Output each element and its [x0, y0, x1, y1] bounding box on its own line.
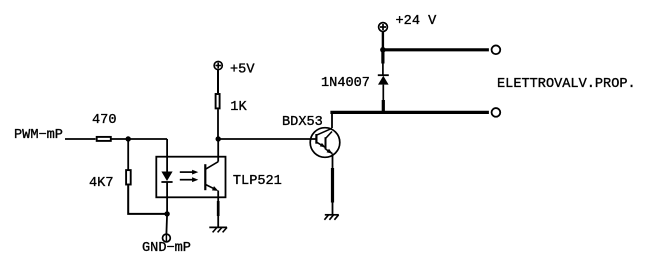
svg-text:470: 470 [92, 113, 116, 128]
svg-text:+5V: +5V [230, 63, 255, 78]
wire PWM input [65, 138, 96, 140]
junction PWM/4K7 [126, 136, 131, 141]
junction GND node [164, 211, 169, 216]
wire base node to BDX53 base [218, 138, 316, 140]
wire 1K to base node [217, 109, 219, 139]
svg-text:1N4007: 1N4007 [321, 76, 370, 91]
svg-text:GND−mP: GND−mP [142, 241, 191, 256]
wire opto emitter pin [217, 191, 219, 203]
svg-text:4K7: 4K7 [89, 176, 113, 191]
svg-text:TLP521: TLP521 [233, 174, 282, 189]
wire top rail (thick) [381, 48, 489, 51]
wire BDX53 collector up to output line [331, 112, 333, 128]
wire LED anode pin [166, 139, 168, 172]
transistor BDX53 [310, 128, 340, 158]
ground (opto emitter) [209, 226, 227, 228]
light arrow upper [180, 171, 193, 173]
LED diode of opto [161, 172, 172, 182]
diode 1N4007 [378, 74, 389, 76]
svg-text:ELETTROVALV.PROP.: ELETTROVALV.PROP. [497, 77, 636, 92]
wire +24V down to top rail [382, 32, 384, 50]
wire lower rail (thick) [330, 111, 489, 114]
wire LED cathode pin [166, 182, 168, 214]
power +24V symbol [379, 23, 388, 32]
wire to GND-mP terminal [165, 214, 168, 234]
opto-coupler U1 box [156, 157, 225, 198]
svg-text:PWM−mP: PWM−mP [14, 128, 63, 143]
resistor 1K [216, 94, 220, 108]
wire +5V to 1K [217, 70, 219, 93]
wire 470 to LED pin [112, 138, 168, 140]
wire diode anode to lower rail [382, 85, 384, 101]
wire rail to diode cathode [381, 50, 384, 64]
power +5V symbol [214, 61, 222, 69]
svg-text:1K: 1K [230, 100, 247, 115]
resistor 470 [97, 137, 111, 141]
terminal upper [492, 45, 501, 54]
wire junction to 4K7 [127, 139, 129, 170]
light arrow lower [180, 179, 193, 181]
resistor 4K7 [126, 170, 131, 184]
wire 4K7 bottom to GND node [128, 185, 167, 214]
phototransistor of opto [204, 164, 206, 190]
terminal lower [492, 108, 501, 117]
junction top rail [380, 47, 386, 53]
terminal GND-mP [163, 234, 171, 242]
ground (BDX53 emitter) [325, 214, 339, 216]
junction base node [216, 136, 221, 141]
svg-text:BDX53: BDX53 [282, 115, 323, 130]
svg-text:+24 V: +24 V [396, 14, 438, 29]
wire BDX53 emitter down [332, 154, 334, 169]
wire opto collector pin to base node [217, 139, 219, 162]
